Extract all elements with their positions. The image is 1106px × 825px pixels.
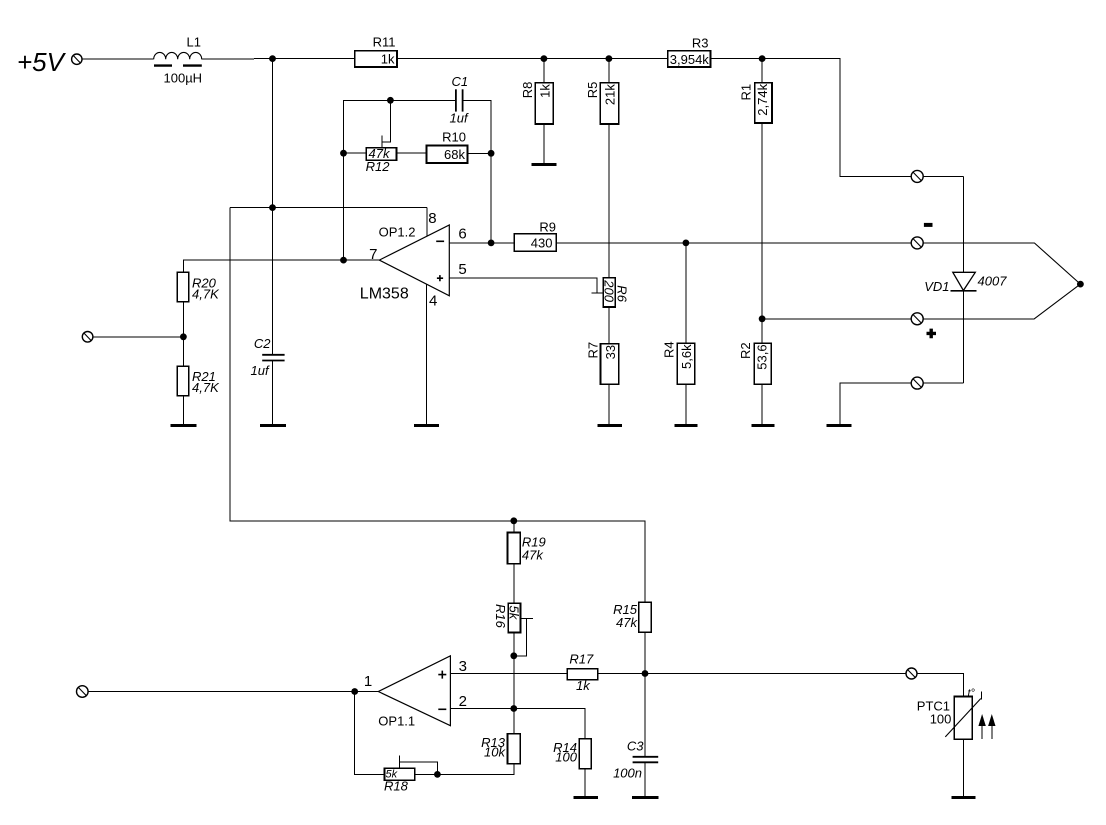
node junction output / feedback	[340, 257, 347, 264]
node junction R18 wiper	[434, 771, 441, 778]
svg-text:R6: R6	[614, 285, 629, 302]
svg-text:C3: C3	[627, 739, 644, 754]
wire R4 bottom lead	[685, 384, 687, 424]
label minus	[924, 223, 933, 227]
terminal X2 (reference out)	[82, 332, 93, 343]
trimmer R6	[602, 278, 630, 307]
node junction loop right / R10 row	[488, 150, 495, 157]
svg-text:VD1: VD1	[924, 279, 949, 294]
wire R13 top lead	[513, 709, 515, 734]
svg-text:L1: L1	[187, 35, 201, 50]
resistor R8	[520, 82, 553, 124]
wire R19 top lead	[513, 521, 515, 533]
svg-text:5,6k: 5,6k	[679, 344, 694, 369]
terminal X3 (out 1)	[911, 170, 923, 182]
wire to R5 junction	[544, 58, 609, 60]
svg-text:C1: C1	[452, 74, 469, 89]
diode VD1	[924, 272, 1007, 294]
heating arrows	[978, 714, 995, 739]
node junction R15/R17/C3	[642, 670, 649, 677]
wire feedback loop top	[344, 100, 456, 153]
node junction wiper tie	[510, 652, 517, 659]
svg-text:+5V: +5V	[17, 47, 67, 77]
node junction divider mid	[180, 333, 187, 340]
wire terminal to L1	[82, 58, 154, 60]
terminal X7 (sensor input)	[77, 686, 89, 698]
svg-text:10k: 10k	[484, 745, 506, 760]
wire C3 bottom lead	[644, 762, 646, 796]
terminal X4 (minus)	[911, 237, 923, 249]
svg-text:R4: R4	[661, 341, 676, 358]
wire R12 row left	[344, 152, 367, 154]
svg-text:2,74k: 2,74k	[755, 83, 770, 115]
wire pin4 stub to ground	[426, 284, 428, 424]
ground under C2	[260, 424, 286, 427]
wire R1 bottom to R2 (crosses pin6 wire)	[761, 123, 763, 343]
wire junction to R11	[273, 58, 355, 60]
svg-text:3,954k: 3,954k	[670, 52, 710, 67]
ground under PTC1	[952, 796, 976, 799]
svg-text:R17: R17	[569, 652, 594, 667]
svg-text:R1: R1	[739, 84, 754, 101]
wire C2 bottom lead	[272, 361, 274, 425]
resistor R20	[177, 272, 220, 302]
resistor R13	[481, 734, 520, 764]
svg-text:5: 5	[458, 261, 466, 278]
svg-text:LM358: LM358	[360, 286, 409, 303]
wire diode bus lower	[962, 291, 964, 383]
node junction loop left / R12 row	[340, 150, 347, 157]
wire R13 bottom to R18 row	[437, 764, 513, 775]
svg-text:OP1.2: OP1.2	[379, 224, 416, 239]
wire R19 to R16	[513, 564, 515, 603]
node junction probe apex	[1077, 281, 1084, 288]
wire R18 to junction	[415, 773, 438, 775]
wire R6 bottom to R7	[608, 307, 610, 344]
resistor R17	[567, 652, 598, 693]
node junction R5 top	[606, 55, 613, 62]
node junction R12 wiper tap	[387, 97, 394, 104]
svg-text:430: 430	[531, 235, 553, 250]
node junction pin8 rail	[269, 204, 276, 211]
svg-text:68k: 68k	[444, 147, 465, 162]
node junction pin6 / loop	[488, 240, 495, 247]
resistor R19	[508, 533, 546, 564]
ground under R4	[674, 424, 697, 427]
wire R9 to minus terminal (crosses R5 and R1 lines)	[556, 242, 912, 244]
wire +5V drop to pin8 rail	[272, 59, 274, 208]
wire pin5 to R6 wiper	[449, 278, 597, 293]
svg-text:4,7K: 4,7K	[192, 380, 220, 395]
svg-text:C2: C2	[254, 336, 271, 351]
svg-text:3: 3	[459, 658, 467, 675]
svg-text:OP1.1: OP1.1	[378, 714, 415, 729]
capacitor C1	[450, 74, 469, 126]
ground under C3	[632, 796, 659, 799]
svg-text:4007: 4007	[978, 273, 1008, 288]
svg-text:33: 33	[603, 345, 618, 359]
svg-text:47k: 47k	[616, 615, 638, 630]
wire C2 drop (crosses output wire)	[272, 208, 274, 355]
resistor R10	[427, 130, 468, 164]
wire R16 wiper tap down	[514, 618, 527, 656]
wire loop left down to output	[343, 153, 345, 260]
svg-text:8: 8	[428, 210, 436, 227]
wire C3 top lead	[644, 674, 646, 757]
resistor R5	[585, 82, 619, 124]
node junction R1/R2 to plus terminal	[759, 315, 766, 322]
svg-text:47k: 47k	[522, 548, 544, 563]
trimmer R18	[384, 768, 415, 793]
svg-text:R10: R10	[442, 130, 466, 145]
node junction +5V rail / vertical drop	[269, 55, 276, 62]
svg-text:R5: R5	[585, 82, 600, 99]
wire L1 to junction	[202, 58, 273, 61]
svg-text:R7: R7	[585, 342, 600, 359]
node junction pin2	[510, 705, 517, 712]
terminal X1 (+5V input)	[72, 54, 82, 64]
svg-text:53,6: 53,6	[754, 344, 769, 369]
wire R12 wiper tap to loop top	[382, 100, 391, 142]
wire pin8 rail horizontal	[230, 207, 427, 209]
wire R1 top lead	[761, 59, 763, 83]
capacitor C2	[251, 336, 285, 378]
svg-text:1k: 1k	[381, 52, 395, 67]
wire output pin7	[183, 260, 379, 272]
svg-text:t°: t°	[968, 688, 976, 700]
R18 wiper stem	[399, 756, 401, 769]
ground under R8	[532, 163, 557, 166]
wire R20 bottom to R21 top	[182, 302, 184, 366]
node junction output pin1	[351, 688, 358, 695]
svg-text:2: 2	[459, 693, 467, 710]
ground under R14	[574, 796, 598, 799]
svg-text:21k: 21k	[603, 84, 618, 105]
wire R8 top lead	[543, 59, 545, 83]
resistor R14	[553, 739, 591, 769]
resistor R9	[514, 220, 556, 252]
R16 wiper stem	[521, 617, 533, 619]
wire loop right down to pin6	[490, 153, 492, 243]
wire R2 junction to plus terminal	[762, 318, 912, 320]
svg-text:1uf: 1uf	[251, 363, 270, 378]
wire to R3	[609, 58, 668, 60]
wire R8 bottom lead	[543, 124, 545, 164]
terminal X5 (plus)	[911, 313, 923, 325]
wire R10 to loop right	[468, 152, 492, 154]
wire plus terminal to apex (crosses bus)	[923, 318, 1034, 320]
svg-text:R3: R3	[692, 36, 709, 51]
wire bias rail to R15	[514, 521, 645, 602]
wire left bias drop to bottom section	[230, 208, 514, 521]
wire junction to PTC terminal	[645, 673, 906, 675]
wire pin3 to R17	[450, 673, 567, 675]
wire R16 bottom to pin2 net (crosses pin3 wire)	[513, 633, 515, 709]
label plus	[927, 329, 937, 339]
wire gnd terminal left to ground	[840, 383, 912, 424]
trimmer R16	[493, 603, 522, 632]
resistor R2	[738, 342, 771, 384]
ground under R7	[598, 424, 623, 427]
wire R5 top lead	[608, 59, 610, 83]
node junction R19 top	[510, 517, 517, 524]
svg-text:1uf: 1uf	[450, 111, 469, 126]
R12 wiper stem	[381, 136, 383, 148]
resistor R11	[355, 34, 397, 67]
wire R21 bottom lead	[182, 396, 184, 424]
svg-text:R16: R16	[493, 604, 508, 629]
thermistor PTC1	[917, 688, 982, 740]
svg-text:R11: R11	[373, 34, 396, 49]
svg-text:100: 100	[555, 750, 577, 765]
wire R5 bottom to R6 top (crosses pin6 wire)	[608, 124, 610, 278]
ground under R2	[751, 424, 774, 427]
resistor R15	[613, 602, 651, 632]
wire pin2 to R14 corner	[450, 709, 585, 739]
svg-text:R8: R8	[520, 82, 535, 99]
op-amp U1b OP1.2	[360, 210, 467, 310]
wire pin6 to R9	[449, 242, 514, 244]
wire R17 to junction	[598, 673, 645, 675]
wire R14 bottom lead	[584, 769, 586, 796]
wire terminal to PTC top	[917, 674, 963, 697]
svg-text:1k: 1k	[576, 678, 591, 693]
wire pin8 stub	[426, 208, 428, 237]
inductor L1	[154, 35, 202, 86]
wire R15 bottom lead	[644, 632, 646, 673]
resistor R21	[177, 366, 220, 396]
wire gnd terminal to bus bottom	[923, 382, 963, 384]
terminal X6 (gnd)	[911, 377, 923, 389]
op-amp U1a OP1.1	[364, 656, 467, 729]
resistor R4	[661, 341, 695, 384]
resistor R1	[739, 83, 772, 123]
svg-text:100n: 100n	[613, 766, 642, 781]
terminal X8 (PTC)	[906, 668, 917, 679]
svg-text:R12: R12	[366, 159, 391, 174]
wire R3 to R1 junction	[711, 58, 763, 60]
svg-text:1k: 1k	[538, 84, 553, 98]
wire diode bus upper	[962, 176, 964, 272]
wire R2 bottom lead	[761, 384, 763, 424]
wire terminal to OP1.1	[88, 691, 378, 693]
wire rail to right corner and down to terminal 1	[762, 59, 912, 177]
svg-text:R9: R9	[539, 220, 556, 235]
wire terminal1 to diode bus	[923, 175, 963, 177]
ground under R21	[171, 424, 197, 427]
wire C1 right to loop right side	[463, 100, 492, 153]
resistor R3	[668, 36, 711, 68]
node junction R1 top	[759, 55, 766, 62]
svg-text:4,7K: 4,7K	[192, 287, 220, 302]
ground under pin4	[414, 424, 439, 427]
svg-text:100: 100	[930, 712, 952, 727]
wire R12 to R10	[397, 152, 427, 154]
wire OP1.1 feedback drop	[355, 692, 385, 775]
node junction R8 top	[541, 55, 548, 62]
svg-text:100µH: 100µH	[164, 71, 203, 86]
resistor R7	[585, 342, 619, 384]
trimmer R12	[366, 146, 397, 174]
svg-text:1: 1	[364, 673, 372, 690]
svg-text:R18: R18	[384, 779, 409, 794]
R6 wiper stem	[591, 292, 603, 294]
svg-text:6: 6	[458, 226, 466, 243]
wire R4 top lead	[685, 243, 687, 343]
wire terminal to divider	[93, 336, 183, 338]
svg-text:4: 4	[429, 293, 437, 310]
wire minus terminal to apex (crosses bus)	[923, 242, 1034, 244]
node junction R4 top on pin6 net	[683, 240, 690, 247]
wire PTC bottom lead	[962, 739, 964, 796]
wire R11 to R8 junction	[397, 58, 544, 60]
capacitor C3	[613, 739, 658, 781]
ground under terminal row	[826, 424, 851, 427]
svg-text:R2: R2	[738, 342, 753, 359]
wire R18 wiper tap	[400, 762, 438, 774]
wire R7 bottom lead	[608, 384, 610, 424]
